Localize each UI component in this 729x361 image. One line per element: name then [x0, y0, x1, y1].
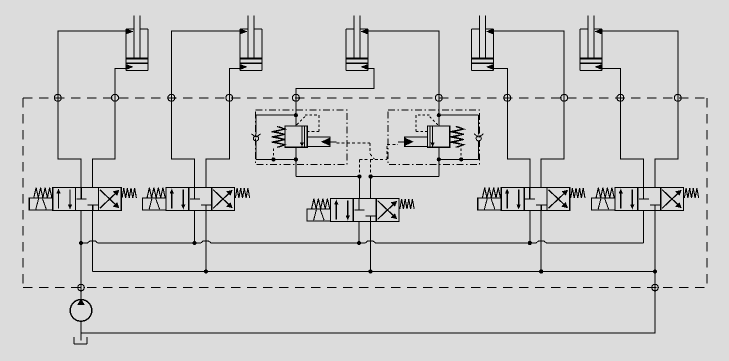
- hydraulic cylinder CYL1: [126, 16, 148, 71]
- wire CYL5 rod-end to bulkhead node: [602, 31, 678, 101]
- wire CYL4 rod-end to bulkhead node: [494, 31, 565, 101]
- wire V2 port P down to bus P: [194, 211, 196, 244]
- junction on bus T at x=205.9: [204, 269, 208, 273]
- bulkhead connector node B5: [292, 94, 299, 101]
- wire V5 port P down to bus P (corner): [643, 211, 645, 244]
- wire V1 port P down to bus P: [80, 211, 82, 244]
- bulkhead connector node B4: [226, 94, 233, 101]
- wire node B1 to V1 port A: [58, 94, 81, 187]
- pressure bus P with crossover hops: [81, 241, 644, 243]
- wire node B8 to V4 port B: [541, 94, 564, 187]
- bulkhead connector node B8: [561, 94, 568, 101]
- hydraulic cylinder CYL2: [240, 16, 262, 71]
- wire node B4 to V2 port B: [206, 94, 229, 187]
- directional control valve V4 (3-position 4-way): [478, 188, 585, 211]
- wire V4 port T down to bus T: [540, 211, 542, 272]
- wire CYL3 cap-end to bulkhead node: [296, 68, 374, 101]
- directional control valve V3 (3-position 4-way): [307, 199, 414, 222]
- junction on bus P at x=194.5: [192, 241, 196, 245]
- bulkhead connector node at pump line: [78, 284, 85, 291]
- wire CYL1 cap-end to bulkhead node: [115, 68, 126, 101]
- wire V2 port T down to bus T: [205, 211, 207, 272]
- wire pump suction: [80, 322, 82, 341]
- wire CYL4 cap-end to bulkhead node: [494, 68, 508, 101]
- junction on bus T at x=655: [653, 269, 657, 273]
- wire V5 port T down to bus T: [654, 211, 656, 272]
- wire tank return line: [81, 332, 655, 334]
- bulkhead connector node B6: [435, 94, 442, 101]
- wire CYL3 rod-end to bulkhead node: [368, 31, 439, 101]
- wire CYL5 cap-end to bulkhead node: [602, 68, 620, 101]
- hydraulic cylinder CYL3: [346, 16, 368, 71]
- bulkhead connector node B3: [168, 94, 175, 101]
- wire node B2 to V1 port B: [93, 94, 115, 187]
- bulkhead connector node B9: [617, 94, 624, 101]
- wire CB2 output to V3 port B: [371, 177, 439, 199]
- directional control valve V2 (3-position 4-way): [143, 188, 250, 211]
- wire V1 port T down to bus T (corner): [92, 211, 94, 272]
- hydraulic pump P1: [70, 299, 92, 321]
- wire pump pressure riser: [80, 243, 82, 300]
- wire node B7 to V4 port A: [507, 94, 530, 187]
- counterbalance valve assembly CB2 (dash-dot enclosure): [388, 94, 483, 176]
- wire CYL2 cap-end to bulkhead node: [229, 68, 240, 101]
- directional control valve V5 (3-position 4-way): [592, 188, 699, 211]
- wire node B10 to V5 port B: [655, 94, 678, 187]
- bulkhead connector node B2: [112, 94, 119, 101]
- tank bus T: [93, 271, 655, 273]
- bulkhead connector node B7: [504, 94, 511, 101]
- wire V3 port P down to bus P: [358, 222, 360, 244]
- wire V4 port P down to bus P: [529, 211, 531, 244]
- wire CB1 output to V3 port A: [296, 177, 360, 199]
- junction on bus P at x=359: [357, 241, 361, 245]
- hydraulic cylinder CYL5: [580, 16, 602, 71]
- bulkhead connector node at tank return: [652, 284, 659, 291]
- junction on bus T at x=370.4: [368, 269, 372, 273]
- wire CYL1 rod-end to bulkhead node: [58, 31, 126, 101]
- pilot line manifold (dashed): [359, 158, 387, 160]
- bulkhead connector node B1: [54, 94, 61, 101]
- junction on bus P at x=81: [79, 241, 83, 245]
- pilot line CB1 (dashed): [337, 142, 371, 144]
- junction on bus P at x=529.8: [528, 241, 532, 245]
- counterbalance valve assembly CB1 (dash-dot enclosure): [251, 94, 346, 176]
- hydraulic cylinder CYL4: [472, 16, 494, 71]
- wire tank return drop: [654, 272, 656, 334]
- bulkhead connector node B10: [674, 94, 681, 101]
- wire node B3 to V2 port A: [171, 94, 194, 187]
- directional control valve V1 (3-position 4-way): [29, 188, 136, 211]
- enclosure boundary (dashed manifold frame): [23, 98, 707, 288]
- wire V3 port T down to bus T: [369, 222, 371, 272]
- wire node B9 to V5 port A: [620, 94, 643, 187]
- tank T1: [74, 337, 87, 344]
- pilot line CB2 (dashed): [386, 145, 388, 160]
- junction on bus T at x=541.2: [539, 269, 543, 273]
- wire CYL2 rod-end to bulkhead node: [171, 31, 240, 101]
